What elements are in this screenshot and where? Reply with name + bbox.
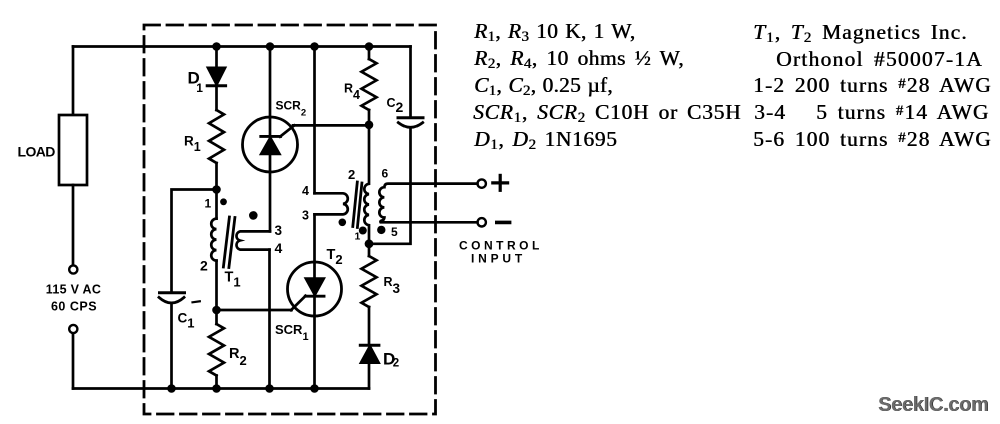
wire top rail [73,45,411,48]
wire C2 drop from rail [409,47,412,117]
wire C1 branch [172,190,217,292]
label minus sign [497,221,510,225]
wire load top drop [72,47,75,116]
capacitor C2 [398,118,423,128]
wire T2 pin3 to SCR1 anode [313,214,316,262]
terminal AC bottom [69,325,77,333]
wire T1 pin4 drop to bottom rail [268,250,271,389]
junction top rail D1 [212,42,221,51]
transformer T1 secondary winding [236,231,270,249]
note T1 T2 maker [753,20,968,45]
transformer T2 middle winding pins 2-1 [364,125,369,244]
junction node R1/C1/T1 [212,185,221,194]
terminal AC top [69,265,77,273]
transformer T1 core [223,217,235,268]
wire SCR1 cathode to bottom rail [313,316,316,389]
transformer T1 primary winding [211,219,216,261]
wire AC to bottom rail [72,334,75,389]
junction gate node T1 pin2/R2 [212,306,221,315]
transformer T1 primary lead pin1 [215,190,218,219]
resistor R2 [209,310,224,389]
transformer T2 right winding pins 6-5 [379,184,477,223]
polarity dot T2 middle winding [359,227,367,235]
note winding 3-4 [754,100,989,125]
junction top rail T2 pin4 [310,42,319,51]
wire C2 to node1 [369,129,411,244]
note C1 C2 values [474,73,613,98]
watermark SeekIC.com [878,394,988,417]
thyristor SCR1 [288,262,342,316]
junction bottom rail R2 [212,384,221,393]
wire D1 anode [215,47,218,68]
note winding 1-2 [753,73,992,98]
note Orthonol part [776,47,983,72]
wire SCR1 gate wire [217,309,292,312]
diode D2 [360,307,379,389]
transformer T2 core [353,182,362,228]
transformer T2 left winding pins 4-3 [315,193,348,214]
capacitor C1 [159,293,185,303]
terminal control plus [478,179,486,187]
junction bottom rail C1 [167,384,176,393]
junction top rail SCR2 [266,42,275,51]
junction top rail R4 [365,42,374,51]
wire R1 to node1 [215,163,218,190]
resistor R3 [362,244,377,307]
wire SCR2 gate to R4 node [293,124,369,127]
note winding 5-6 [753,127,992,152]
wire C1 to bottom rail [170,304,173,389]
wire bottom rail [73,387,369,390]
stray tick near C1 [193,301,200,302]
polarity dot T2 right winding [377,226,385,234]
polarity dot T2 left winding [339,219,347,227]
wire top rail to T2 pin4 [313,47,316,194]
resistor R1 [209,110,224,163]
resistor R4 [362,47,377,125]
load LOAD [59,115,87,185]
thyristor SCR2 [243,117,298,172]
wire SCR2 cathode to T1 pin3 [269,172,272,231]
junction bottom rail T1 pin4 [265,384,274,393]
label plus sign [493,175,508,190]
junction bottom rail SCR1 [310,384,319,393]
polarity dot T1 secondary [249,211,258,220]
wire load to AC source [72,185,75,265]
note D1 D2 type [474,127,617,152]
polarity dot T1 pin1 [220,198,227,205]
note R2 R4 values [474,46,684,71]
note R1 R3 values [474,19,635,44]
terminal control minus [478,218,486,226]
junction R4 bottom gate wire [365,121,374,130]
wire T1 pin2 to gate node [215,261,218,310]
note SCR types [473,100,741,125]
junction node1 pin1/R3/C2 [365,239,374,248]
wire SCR2 anode from top rail [269,47,272,118]
dashed enclosure [144,25,436,414]
diode D1 [207,68,225,110]
